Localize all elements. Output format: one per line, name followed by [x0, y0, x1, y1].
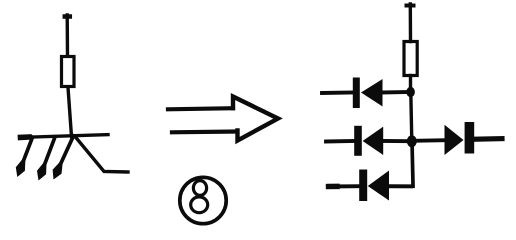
diode D2 cathode bar	[354, 126, 362, 156]
arrow tap 3 (down-left arrow from node)	[53, 136, 74, 180]
diode D1 left wire	[322, 91, 353, 95]
label digit 8	[191, 181, 208, 213]
wire: bottom lead of R1 down to node	[68, 88, 72, 137]
diode D3 left wire	[329, 184, 360, 188]
diode D1 (points left)	[361, 79, 383, 107]
diode D1 cathode bar	[353, 78, 360, 109]
diode D3 (points left)	[368, 171, 389, 201]
wire: top lead of left resistor	[65, 15, 70, 56]
wire: R2 bottom lead to node A	[409, 76, 412, 93]
arrow tap 2 (down-left arrow)	[37, 137, 55, 181]
resistor R1 (left vertical resistor)	[62, 57, 75, 87]
arrow tap 1 (down-left arrow)	[16, 137, 33, 177]
diode D3 cathode bar	[359, 170, 367, 202]
node A (junction dot, top)	[406, 87, 415, 97]
resistor R2 (right vertical resistor)	[404, 42, 417, 76]
label circle (step number)	[180, 177, 226, 223]
wire: bent lead down-right from node	[75, 137, 128, 173]
diode D3 right wire to bus corner	[389, 184, 411, 188]
diode D2 (points left)	[363, 127, 384, 155]
diode D4 (points right)	[445, 125, 464, 155]
node B (junction dot, middle)	[407, 135, 417, 147]
wire: left horizontal line (multi-tap bar)	[21, 135, 109, 138]
diode D4 cathode bar	[465, 122, 475, 154]
big transform arrow (double-line arrow pointing right)	[168, 97, 278, 141]
diode D4 left wire from node B	[413, 138, 445, 143]
wire: top lead of right resistor	[407, 4, 414, 42]
diode D2 left wire	[326, 139, 354, 143]
diode D4 right wire	[475, 136, 503, 142]
wire: bus from node B down to bottom corner	[390, 141, 413, 186]
diode D2 right wire to bus	[383, 139, 407, 143]
wire: bus from node A to node B	[411, 92, 412, 141]
diode D1 right wire to bus	[383, 90, 410, 94]
